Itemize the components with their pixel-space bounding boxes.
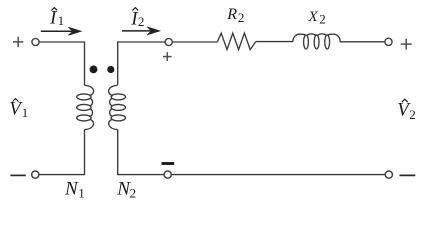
svg-text:1: 1 <box>22 105 29 120</box>
svg-text:X: X <box>308 9 319 25</box>
terminal top-left <box>32 38 39 45</box>
wire secondary top: winding N2 up to terminal a <box>118 42 165 85</box>
transformer primary winding N1 <box>77 85 94 129</box>
wire primary bottom: winding N1 to bottom-left terminal <box>39 130 84 175</box>
minus sign output <box>399 174 415 176</box>
wire secondary bottom rail <box>118 130 386 175</box>
svg-text:R: R <box>226 6 237 23</box>
resistor R2 <box>218 33 256 49</box>
svg-text:1: 1 <box>58 13 65 28</box>
polarity dot primary <box>90 66 98 74</box>
plus sign output <box>401 39 412 50</box>
current arrow I1 <box>41 27 82 35</box>
transformer secondary winding N2 <box>109 85 126 129</box>
svg-text:2: 2 <box>130 185 137 200</box>
label V1 hat <box>13 99 19 102</box>
plus sign secondary (below terminal a) <box>163 52 172 61</box>
minus sign secondary (above terminal b) <box>162 162 175 165</box>
svg-text:2: 2 <box>138 14 145 29</box>
minus sign primary <box>10 174 25 176</box>
current arrow I2 <box>122 27 160 35</box>
svg-text:2: 2 <box>238 10 245 25</box>
plus sign primary <box>13 37 23 47</box>
terminal b (secondary bottom) <box>164 171 171 178</box>
polarity dot secondary <box>107 66 114 73</box>
inductor X2 <box>293 34 340 49</box>
terminal bottom-left <box>32 171 39 178</box>
wire resistor to inductor X2 <box>256 41 293 43</box>
svg-text:N: N <box>64 179 79 200</box>
label I2 hat <box>132 8 138 11</box>
wire terminal a to resistor R2 <box>173 41 218 43</box>
svg-text:2: 2 <box>409 107 416 122</box>
terminal d (output bottom-right) <box>385 171 392 178</box>
label V2 hat <box>402 99 408 102</box>
wire inductor to terminal c <box>340 41 385 43</box>
terminal a (secondary top) <box>165 38 172 45</box>
svg-text:2: 2 <box>319 12 326 27</box>
label I1 hat <box>51 8 57 11</box>
terminal c (output top-right) <box>385 38 392 45</box>
wire primary top: terminal to winding N1 <box>39 42 84 85</box>
svg-text:1: 1 <box>78 185 85 200</box>
